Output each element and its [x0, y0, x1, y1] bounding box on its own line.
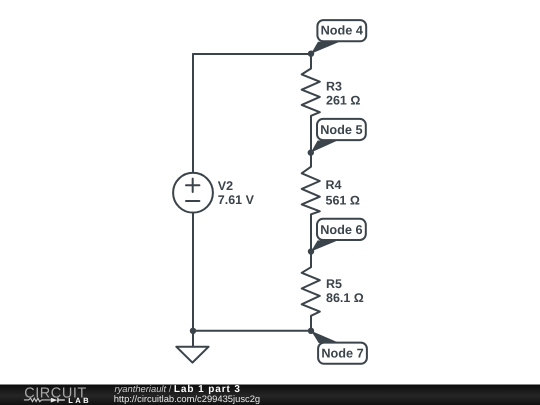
svg-text:R3: R3 — [326, 80, 342, 94]
svg-text:V2: V2 — [218, 179, 233, 193]
node 5 label box — [317, 119, 366, 140]
ground wire stub — [192, 331, 194, 347]
wire top horizontal — [193, 53, 311, 55]
voltage source V2 minus sign — [186, 200, 199, 202]
svg-text:http://circuitlab.com/c299435j: http://circuitlab.com/c299435jusc2g — [114, 393, 260, 404]
svg-text:LAB: LAB — [68, 396, 91, 405]
svg-text:R4: R4 — [326, 178, 342, 192]
node 4 label box — [317, 20, 366, 41]
svg-text:86.1 Ω: 86.1 Ω — [326, 291, 364, 305]
voltage source V2 circle — [173, 173, 213, 213]
voltage source V2 plus sign — [186, 179, 199, 192]
svg-text:7.61 V: 7.61 V — [218, 193, 255, 207]
CircuitLab logo resistor-diode squiggle — [24, 398, 51, 401]
node 4 flag pointer — [311, 42, 339, 54]
footer bar — [0, 385, 540, 405]
junction dot node 4 — [308, 51, 314, 57]
node 7 flag pointer — [311, 331, 340, 343]
svg-text:Node 5: Node 5 — [320, 123, 362, 137]
wire bottom horizontal — [193, 330, 311, 332]
svg-text:Node 6: Node 6 — [320, 223, 362, 237]
junction dot ground — [190, 328, 196, 334]
node 6 flag pointer — [311, 240, 337, 251]
svg-text:Node 4: Node 4 — [321, 24, 363, 38]
wire left vertical upper — [192, 54, 194, 173]
junction dot node 6 — [308, 248, 314, 254]
svg-text:561 Ω: 561 Ω — [326, 194, 360, 208]
resistor R5 zigzag — [302, 252, 320, 331]
node 5 flag pointer — [311, 141, 337, 153]
CircuitLab logo diode — [51, 398, 58, 403]
resistor R4 zigzag — [302, 153, 320, 252]
wire left vertical lower — [192, 213, 194, 331]
junction dot node 5 — [308, 149, 314, 155]
svg-text:261 Ω: 261 Ω — [326, 94, 360, 108]
resistor R3 zigzag — [302, 54, 320, 153]
ground symbol triangle — [176, 347, 208, 363]
node 6 label box — [317, 219, 366, 240]
svg-text:R5: R5 — [326, 277, 342, 291]
node 7 label box — [318, 343, 367, 364]
junction dot node 7 — [308, 328, 314, 334]
svg-text:Node 7: Node 7 — [321, 347, 363, 361]
